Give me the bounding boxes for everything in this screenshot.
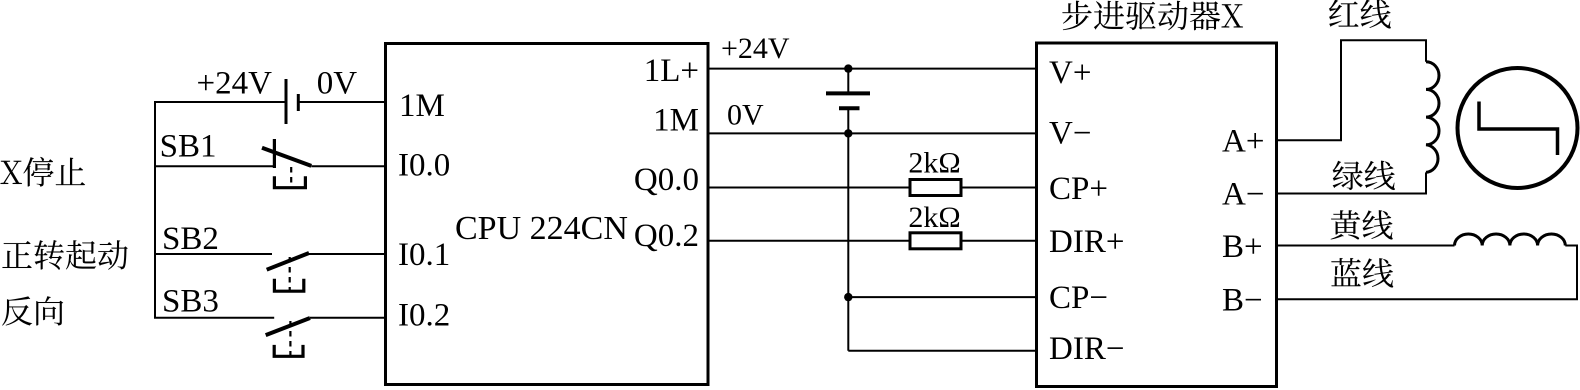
label SB1 (160, 129, 217, 165)
wire: bus to SB2 (154, 253, 272, 255)
svg-text:Q0.2: Q0.2 (634, 218, 699, 254)
pin DIR- (1049, 331, 1124, 367)
pin I0.0 (398, 147, 450, 183)
node: 0V junction (844, 129, 852, 137)
pin I0.1 (398, 237, 450, 273)
wire: SB2 to CPU I0.1 terminal (309, 253, 386, 255)
svg-text:SB3: SB3 (162, 284, 219, 320)
label 0V (middle) (727, 98, 764, 131)
PLC U1: CPU 224CN box (386, 44, 709, 385)
pin 1L+ (644, 53, 699, 89)
svg-text:2kΩ: 2kΩ (908, 201, 960, 234)
wire: resistor R1 to driver CP+ (961, 187, 1037, 189)
wire: bus to battery G1 (154, 101, 286, 103)
battery G2 (24V supply, middle) (826, 93, 870, 108)
svg-text:I0.2: I0.2 (398, 298, 450, 334)
wire: junction to battery G2 (847, 69, 849, 94)
label +24V (middle) (721, 32, 790, 65)
label X停止 (X stop) (0, 157, 85, 187)
label +24V (left battery) (197, 65, 273, 101)
wire: CPU Q0.2 to resistor R2 (708, 240, 910, 242)
wire: driver A+ up and over to coil L1 (red wire) (1277, 40, 1427, 140)
label SB3 (162, 284, 219, 320)
svg-text:A+: A+ (1222, 123, 1264, 159)
wire: CPU Q0.0 to resistor R1 (708, 187, 910, 189)
svg-text:+24V: +24V (197, 65, 273, 101)
stepper driver U2 box (1037, 43, 1277, 387)
svg-text:CPU 224CN: CPU 224CN (455, 210, 628, 247)
label 2kΩ (R1) (908, 146, 960, 179)
pin B- (1222, 283, 1263, 319)
pin V- (1049, 116, 1091, 152)
pin A+ (1222, 123, 1264, 159)
wire: SB1 to CPU I0.0 terminal (311, 165, 385, 167)
pushbutton SB3 (reverse start, NO contact) (266, 318, 310, 356)
svg-text:SB2: SB2 (162, 221, 219, 257)
node: CP- junction on 0V bus (844, 293, 852, 301)
svg-text:1M: 1M (653, 103, 699, 139)
pin V+ (1049, 55, 1091, 91)
label 2kΩ (R2) (908, 201, 960, 234)
wire: coil L1 back to driver A- (green wire) (1277, 172, 1427, 193)
svg-text:V+: V+ (1049, 55, 1091, 91)
pin 1M (input common) (399, 88, 445, 124)
wire: battery G1 to CPU 1M terminal (298, 101, 385, 103)
wire: 0V bus to driver DIR- (848, 350, 1036, 352)
svg-text:A−: A− (1222, 177, 1264, 213)
wire: bus to SB1 (154, 165, 274, 167)
svg-text:DIR+: DIR+ (1049, 224, 1124, 260)
wire: SB3 to CPU I0.2 terminal (310, 317, 386, 319)
pin 1M (output common) (653, 103, 699, 139)
stepper motor M1 (1458, 68, 1578, 188)
label 红线 (red wire) (1329, 0, 1391, 29)
label 步进驱动器X (stepper driver X) (1062, 1, 1243, 31)
wire: coil L2 to right edge and down (blue wire return) (1277, 246, 1578, 300)
pin CP- (1049, 280, 1108, 316)
svg-text:CP+: CP+ (1049, 171, 1108, 207)
label 0V (left battery) (317, 65, 358, 101)
svg-text:V−: V− (1049, 116, 1091, 152)
svg-text:2kΩ: 2kΩ (908, 146, 960, 179)
wire: CPU 1L+ to driver V+ (708, 68, 1037, 70)
svg-text:B−: B− (1222, 283, 1263, 319)
label 蓝线 (blue wire) (1331, 258, 1393, 288)
svg-text:CP−: CP− (1049, 280, 1108, 316)
pin DIR+ (1049, 224, 1124, 260)
wire: 0V bus down to DIR- row (847, 133, 849, 350)
wire: resistor R2 to driver DIR+ (961, 240, 1037, 242)
resistor R1 2kΩ (910, 180, 961, 196)
node: left supply bus (154, 102, 156, 318)
wire: bus to SB3 (154, 317, 274, 319)
pin A- (1222, 177, 1264, 213)
label 正转起动 (forward start) (2, 240, 127, 270)
pin B+ (1222, 229, 1263, 265)
wire: battery G2 to 0V junction (847, 108, 849, 133)
label CPU 224CN (455, 210, 628, 247)
node: +24V junction (844, 64, 852, 72)
svg-text:B+: B+ (1222, 229, 1263, 265)
pushbutton SB2 (forward start, NO contact) (267, 253, 309, 291)
inductor L1 (motor phase A winding) (1426, 62, 1439, 173)
pin CP+ (1049, 171, 1108, 207)
resistor R2 2kΩ (910, 233, 961, 249)
wire: 0V bus to driver CP- (848, 296, 1036, 298)
pushbutton SB1 (stop, NC contact) (262, 139, 311, 188)
wire: driver B+ to coil L2 (yellow wire) (1277, 245, 1455, 247)
svg-text:SB1: SB1 (160, 129, 217, 165)
svg-text:1L+: 1L+ (644, 53, 699, 89)
pin Q0.2 (634, 218, 699, 254)
pin I0.2 (398, 298, 450, 334)
svg-text:+24V: +24V (721, 32, 790, 65)
motor M1 step symbol (1479, 102, 1558, 156)
label 黄线 (yellow wire) (1331, 210, 1393, 239)
label SB2 (162, 221, 219, 257)
svg-text:I0.1: I0.1 (398, 237, 450, 273)
svg-text:I0.0: I0.0 (398, 147, 450, 183)
svg-text:0V: 0V (317, 65, 358, 101)
label 反向 (reverse) (2, 296, 63, 325)
svg-text:0V: 0V (727, 98, 764, 131)
svg-text:1M: 1M (399, 88, 445, 124)
inductor L2 (motor phase B winding) (1455, 234, 1566, 246)
wire: CPU 1M to driver V- (708, 132, 1037, 134)
svg-text:Q0.0: Q0.0 (634, 162, 699, 198)
pin Q0.0 (634, 162, 699, 198)
battery G1 (24V supply) (286, 79, 298, 124)
svg-text:DIR−: DIR− (1049, 331, 1124, 367)
label 绿线 (green wire) (1333, 161, 1395, 190)
